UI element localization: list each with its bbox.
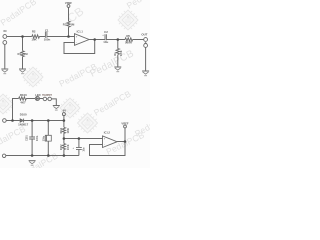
svg-text:100n: 100n bbox=[44, 37, 51, 41]
capacitor C100 bbox=[45, 135, 51, 141]
svg-text:PedalPCB: PedalPCB bbox=[0, 124, 27, 152]
svg-text:100u: 100u bbox=[43, 135, 45, 141]
jack IN tip circle bbox=[3, 35, 7, 39]
svg-text:R2: R2 bbox=[32, 30, 36, 34]
wire IC1.1 feedback loop bbox=[64, 40, 95, 54]
svg-text:1N5817: 1N5817 bbox=[18, 123, 29, 127]
svg-text:10K: 10K bbox=[31, 38, 37, 42]
wire IC1.2 feedback loop bbox=[90, 142, 126, 156]
wire LED to pad1 bbox=[40, 98, 44, 100]
resistor R101 bbox=[62, 127, 65, 133]
node IC1.2 output junction bbox=[124, 140, 127, 143]
wire C101 column bbox=[31, 121, 33, 156]
svg-text:R3: R3 bbox=[63, 23, 67, 27]
jack IN sleeve circle bbox=[3, 41, 7, 45]
node 9V/R100 junction bbox=[11, 119, 14, 122]
node rail C101 junction bbox=[31, 119, 34, 122]
wire R101 column bbox=[63, 121, 65, 128]
wire R102 to rail bbox=[63, 149, 65, 155]
node ground rail C101 junction bbox=[31, 154, 34, 157]
svg-text:PedalPCB: PedalPCB bbox=[92, 88, 133, 117]
jack OUT sleeve chevron bbox=[144, 43, 147, 45]
wire C1 to opamp bbox=[47, 36, 74, 38]
wire C102 column bbox=[78, 139, 80, 156]
node VREF bias junction bbox=[67, 35, 70, 38]
ground R4 bbox=[114, 67, 121, 72]
svg-text:PedalPCB: PedalPCB bbox=[125, 0, 150, 11]
power 9V symbol bbox=[62, 113, 65, 116]
node rail C100 junction bbox=[47, 119, 50, 122]
svg-text:1M: 1M bbox=[24, 52, 29, 56]
svg-text:PedalPCB: PedalPCB bbox=[133, 109, 150, 138]
capacitor C1 bbox=[45, 32, 47, 38]
svg-text:100K: 100K bbox=[68, 144, 70, 150]
wire vref node to IC1.2 bbox=[64, 138, 103, 140]
wire 9V symbol stem bbox=[63, 116, 65, 121]
node C102 top junction bbox=[78, 137, 81, 140]
svg-text:100n: 100n bbox=[37, 135, 39, 141]
power VREF1 symbol bbox=[67, 5, 70, 8]
resistor R5 bbox=[125, 38, 133, 41]
resistor R3 bbox=[67, 21, 70, 27]
svg-text:IC1.1: IC1.1 bbox=[77, 30, 84, 34]
junction dots bbox=[11, 35, 126, 157]
ground OUT sleeve bbox=[142, 71, 149, 76]
svg-text:LED: LED bbox=[35, 93, 40, 97]
resistor R2 bbox=[32, 35, 40, 38]
LED D bbox=[35, 96, 39, 100]
ground IN sleeve bbox=[1, 69, 8, 74]
wire R100 to LED bbox=[26, 98, 35, 100]
node IC1.1 output junction bbox=[93, 38, 96, 41]
svg-text:PedalPCB: PedalPCB bbox=[19, 150, 60, 168]
node IN/R1 junction bbox=[21, 35, 24, 38]
wire R4 column bbox=[117, 40, 119, 68]
svg-text:4K7: 4K7 bbox=[20, 100, 26, 104]
wire C2 to R5 bbox=[107, 39, 125, 41]
ground R1 bbox=[19, 69, 26, 74]
wire C100 column bbox=[47, 121, 49, 156]
svg-text:10u: 10u bbox=[103, 40, 108, 44]
svg-text:C101: C101 bbox=[27, 135, 29, 141]
svg-text:100K: 100K bbox=[68, 128, 70, 134]
wire DC to D100 bbox=[6, 120, 20, 122]
svg-text:9V: 9V bbox=[63, 109, 67, 113]
jack DC sleeve circle bbox=[2, 154, 5, 157]
svg-text:R102: R102 bbox=[61, 144, 63, 150]
wire IN sleeve down to ground bbox=[4, 44, 6, 69]
svg-text:PedalPCB: PedalPCB bbox=[0, 0, 38, 28]
svg-text:D100: D100 bbox=[20, 113, 27, 117]
svg-text:IN: IN bbox=[4, 29, 7, 33]
svg-text:+: + bbox=[73, 148, 75, 150]
wire OUT sleeve to ground bbox=[145, 47, 147, 71]
svg-text:100K: 100K bbox=[121, 50, 123, 56]
jack DC 9V circle bbox=[3, 119, 7, 123]
node ground rail C100 junction bbox=[47, 154, 50, 157]
wire R1 column bbox=[22, 37, 24, 70]
capacitor C101 bbox=[29, 137, 35, 139]
wire IC1.1 output bbox=[89, 39, 105, 41]
jack OUT tip circle bbox=[144, 38, 148, 42]
svg-text:R101: R101 bbox=[61, 127, 63, 133]
wire 9V node to R100 bbox=[13, 99, 19, 121]
op-amp IC1.2 bbox=[103, 136, 118, 148]
wire R5 to OUT bbox=[133, 39, 144, 41]
node rail R101 junction bbox=[63, 119, 66, 122]
resistor R1 bbox=[21, 51, 24, 57]
node C2/R4 junction bbox=[117, 38, 120, 41]
pad LED- circle 2 bbox=[48, 97, 52, 101]
svg-text:C2: C2 bbox=[104, 30, 108, 34]
capacitor C2 bbox=[105, 34, 106, 40]
wire pad2 to LED ground bbox=[52, 99, 57, 106]
svg-text:+: + bbox=[102, 35, 104, 37]
diode D100 bbox=[20, 119, 24, 123]
resistor R4 bbox=[116, 49, 119, 55]
wire R3 to input node bbox=[68, 27, 70, 36]
power VREF2 symbol bbox=[124, 125, 127, 128]
ground LED bbox=[53, 106, 60, 111]
wire IN tip to R2 bbox=[7, 36, 32, 38]
svg-text:R5: R5 bbox=[126, 34, 130, 38]
op-amp IC1.1 bbox=[75, 34, 90, 46]
svg-text:C1: C1 bbox=[45, 28, 49, 32]
pad LED- circle 1 bbox=[43, 97, 47, 101]
wire IC1.2 output bbox=[117, 141, 125, 143]
svg-text:R100: R100 bbox=[20, 93, 27, 97]
svg-text:+: + bbox=[76, 36, 78, 39]
svg-text:OUT: OUT bbox=[141, 32, 147, 36]
wire R101 to node bbox=[63, 133, 65, 143]
wire R2 to C1 bbox=[39, 36, 45, 38]
svg-text:TO3PDT: TO3PDT bbox=[42, 94, 52, 97]
wire IC1.2 output to VREF2 bbox=[124, 128, 126, 142]
svg-text:560R: 560R bbox=[125, 40, 133, 44]
resistor R100 bbox=[19, 97, 27, 100]
svg-text:VREF: VREF bbox=[65, 1, 73, 5]
node ground rail R102 junction bbox=[63, 154, 66, 157]
svg-text:R1: R1 bbox=[18, 52, 22, 56]
svg-text:IC1.2: IC1.2 bbox=[104, 130, 111, 134]
resistor R102 bbox=[62, 144, 65, 150]
wire pad1 to pad2 bbox=[47, 98, 48, 100]
wire ground rail bbox=[6, 155, 79, 157]
ground main rail bbox=[29, 161, 36, 166]
svg-text:VREF: VREF bbox=[121, 121, 129, 125]
wire VREF1 to R3 bbox=[68, 7, 70, 21]
node divider junction bbox=[63, 137, 66, 140]
wire 9V rail bbox=[24, 120, 64, 122]
capacitor C102 bbox=[76, 147, 82, 149]
svg-text:+: + bbox=[104, 138, 106, 141]
svg-text:10u: 10u bbox=[83, 147, 85, 152]
svg-text:1M: 1M bbox=[70, 23, 75, 27]
jack OUT sleeve circle bbox=[144, 44, 148, 48]
